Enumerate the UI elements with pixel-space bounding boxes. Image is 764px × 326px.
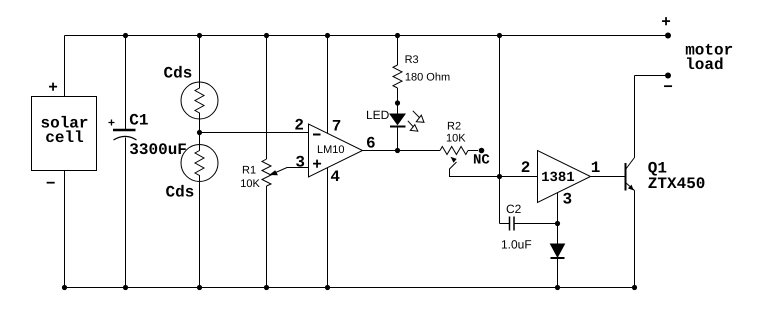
wire C1 top lead xyxy=(125,36,127,131)
wire LED bottom lead xyxy=(397,127,399,151)
svg-text:Cds: Cds xyxy=(166,184,195,202)
photocell Cds2 circle xyxy=(181,145,218,182)
svg-text:+: + xyxy=(108,117,115,131)
capacitor C1 curved plate xyxy=(114,136,137,140)
LED arrow 2 open head xyxy=(410,125,418,132)
capacitor C2 left plate xyxy=(509,217,511,231)
wire solar cell bottom lead xyxy=(64,171,66,288)
capacitor C2 right plate xyxy=(513,217,515,231)
resistor R3 zigzag xyxy=(393,65,402,88)
node top rail junction R3 xyxy=(395,33,400,38)
svg-text:6: 6 xyxy=(366,135,376,153)
wire R3 to LED xyxy=(397,88,399,114)
svg-text:LM10: LM10 xyxy=(317,144,345,156)
wire R2 to NC dot xyxy=(468,150,478,152)
node bottom rail junction C1 xyxy=(123,285,128,290)
wire R1 top lead xyxy=(266,36,268,160)
svg-text:1.0uF: 1.0uF xyxy=(501,238,532,252)
wire Cds1 top lead xyxy=(199,36,201,83)
wire R1 wiper to pin3 xyxy=(275,168,309,174)
node top rail junction C1 xyxy=(123,33,128,38)
svg-text:cell: cell xyxy=(45,129,83,147)
wire collector to motor minus terminal xyxy=(635,75,669,77)
wire C2 left lead xyxy=(500,223,510,225)
wire emitter down lead xyxy=(634,191,636,288)
svg-text:1381: 1381 xyxy=(541,170,575,186)
wire R3 top lead xyxy=(397,36,399,66)
svg-text:load: load xyxy=(685,56,723,74)
wire divider branch from top rail xyxy=(499,36,501,177)
resistor R1 zigzag xyxy=(262,159,271,186)
transistor Q1 emitter arrowhead xyxy=(628,185,634,191)
op-amp minus sign xyxy=(313,134,321,136)
transistor Q1 base bar xyxy=(625,163,627,191)
photocell Cds1 circle xyxy=(181,82,218,119)
svg-text:1: 1 xyxy=(591,159,601,177)
svg-text:−: − xyxy=(663,79,673,97)
node Cds midpoint junction xyxy=(197,130,202,135)
wire junction to 1381 pin 2 xyxy=(500,176,538,178)
wire Cds2 bottom lead xyxy=(199,182,201,288)
svg-text:180 Ohm: 180 Ohm xyxy=(405,72,450,84)
svg-text:3: 3 xyxy=(563,191,573,209)
node C2-pin3 junction xyxy=(555,221,560,226)
svg-text:4: 4 xyxy=(330,168,340,186)
photocell Cds2 zigzag xyxy=(195,145,204,182)
svg-text:+: + xyxy=(312,156,322,174)
wire 1381 output pin1 to base xyxy=(591,176,625,178)
node bottom rail junction R1 xyxy=(264,285,269,290)
svg-text:C1: C1 xyxy=(129,112,148,130)
svg-text:ZTX450: ZTX450 xyxy=(648,175,706,193)
wire C2 right lead xyxy=(514,223,558,225)
node top rail junction divider xyxy=(497,33,502,38)
wire bottom rail xyxy=(65,287,635,289)
svg-text:10K: 10K xyxy=(240,178,260,190)
svg-text:3: 3 xyxy=(295,154,305,172)
wire collector up lead xyxy=(634,76,636,158)
R1 wiper arrowhead xyxy=(269,170,278,175)
op-amp U1 LM10 triangle xyxy=(309,124,363,177)
wire pin2 input from Cds junction to op-amp xyxy=(200,132,309,134)
diode D2 cathode bar xyxy=(551,257,565,259)
svg-text:NC: NC xyxy=(473,153,490,169)
svg-text:+: + xyxy=(48,79,58,97)
wire pin 4 supply lead xyxy=(327,168,329,288)
node bottom rail junction Cds xyxy=(197,285,202,290)
wire R1 bottom lead xyxy=(266,186,268,288)
wire solar cell top lead xyxy=(64,36,66,97)
node R3-LED junction xyxy=(395,100,400,105)
svg-text:2: 2 xyxy=(521,159,531,177)
svg-text:LED: LED xyxy=(366,108,390,122)
diode D2 triangle xyxy=(551,244,565,257)
node NC terminal dot xyxy=(479,148,485,154)
wire top rail xyxy=(65,35,669,37)
capacitor C1 top plate xyxy=(113,129,136,132)
node bottom rail junction solar xyxy=(62,285,67,290)
LED D1 triangle xyxy=(390,114,405,125)
svg-text:Cds: Cds xyxy=(164,65,193,83)
node output-LED junction xyxy=(395,148,400,153)
svg-text:10K: 10K xyxy=(446,133,466,145)
node bottom rail junction emitter xyxy=(632,285,637,290)
wire op-amp output pin6 xyxy=(363,150,441,152)
wire R2 wiper xyxy=(450,162,500,177)
node motor load minus terminal xyxy=(665,73,671,79)
svg-text:7: 7 xyxy=(332,118,342,136)
transistor Q1 emitter diagonal xyxy=(626,183,635,191)
node top rail junction R1 xyxy=(264,33,269,38)
wire junction down to C2 xyxy=(499,177,501,224)
wire pin 7 supply lead xyxy=(327,36,329,134)
svg-text:3300uF: 3300uF xyxy=(129,141,187,159)
node bottom rail junction pin4 xyxy=(325,285,330,290)
node top rail junction Cds xyxy=(197,33,202,38)
node pin2 junction xyxy=(497,174,502,179)
LED arrow 2 shaft xyxy=(408,121,416,130)
svg-text:2: 2 xyxy=(294,117,304,135)
wire C1 bottom lead xyxy=(125,138,127,288)
voltage detector U2 1381 triangle xyxy=(538,151,591,203)
node motor load plus terminal xyxy=(665,33,671,39)
LED cathode bar xyxy=(390,126,406,128)
wire between Cds cells xyxy=(199,119,201,145)
svg-text:+: + xyxy=(661,13,671,31)
wire diode bottom lead xyxy=(557,258,559,288)
wire 1381 pin 3 lead xyxy=(557,193,559,244)
transistor Q1 collector diagonal xyxy=(626,158,635,170)
svg-text:R2: R2 xyxy=(447,121,461,133)
node top rail junction pin7 xyxy=(325,33,330,38)
solar cell B1 box xyxy=(32,97,97,171)
LED arrow 1 shaft xyxy=(413,111,423,121)
node bottom rail junction diode xyxy=(555,285,560,290)
svg-text:−: − xyxy=(46,175,56,193)
svg-text:C2: C2 xyxy=(506,202,522,216)
R2 wiper arrowhead xyxy=(451,157,457,163)
svg-text:R3: R3 xyxy=(405,54,419,66)
LED arrow 1 open head xyxy=(416,115,424,122)
svg-text:R1: R1 xyxy=(242,165,256,177)
photocell Cds1 zigzag xyxy=(195,82,204,119)
resistor R2 zigzag xyxy=(440,147,468,155)
